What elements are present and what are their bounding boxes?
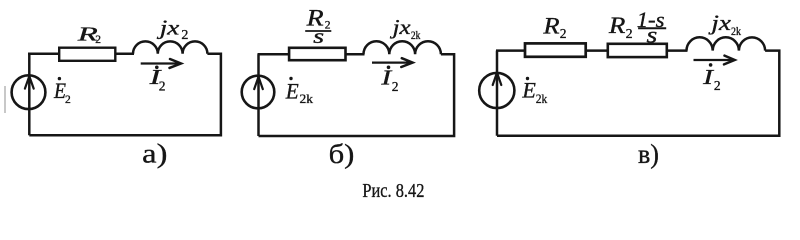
- svg-text:2: 2: [95, 34, 101, 46]
- svg-text:2: 2: [325, 20, 331, 32]
- svg-text:I: I: [702, 65, 714, 89]
- svg-text:I: I: [380, 65, 392, 89]
- svg-text:jx: jx: [708, 10, 731, 35]
- svg-text:б): б): [329, 138, 355, 169]
- svg-text:R: R: [542, 14, 559, 39]
- svg-text:2: 2: [65, 94, 71, 106]
- svg-text:Рис. 8.42: Рис. 8.42: [362, 180, 424, 202]
- svg-text:s: s: [647, 23, 658, 48]
- svg-text:2: 2: [181, 28, 188, 43]
- svg-text:в): в): [638, 138, 659, 169]
- svg-text:E: E: [521, 78, 536, 103]
- svg-text:2: 2: [560, 26, 567, 41]
- svg-text:jx: jx: [389, 15, 411, 39]
- svg-text:s: s: [313, 24, 324, 48]
- svg-text:2k: 2k: [731, 24, 741, 38]
- svg-text:R: R: [608, 13, 626, 38]
- svg-text:2: 2: [714, 78, 721, 93]
- svg-text:2: 2: [392, 79, 399, 94]
- svg-text:2: 2: [159, 78, 166, 93]
- svg-text:2: 2: [626, 27, 633, 42]
- svg-text:2k: 2k: [411, 30, 421, 42]
- svg-text:E: E: [285, 78, 299, 103]
- svg-text:jx: jx: [156, 15, 180, 39]
- svg-text:а): а): [142, 139, 167, 169]
- svg-text:2k: 2k: [300, 91, 314, 106]
- svg-text:2k: 2k: [536, 91, 548, 106]
